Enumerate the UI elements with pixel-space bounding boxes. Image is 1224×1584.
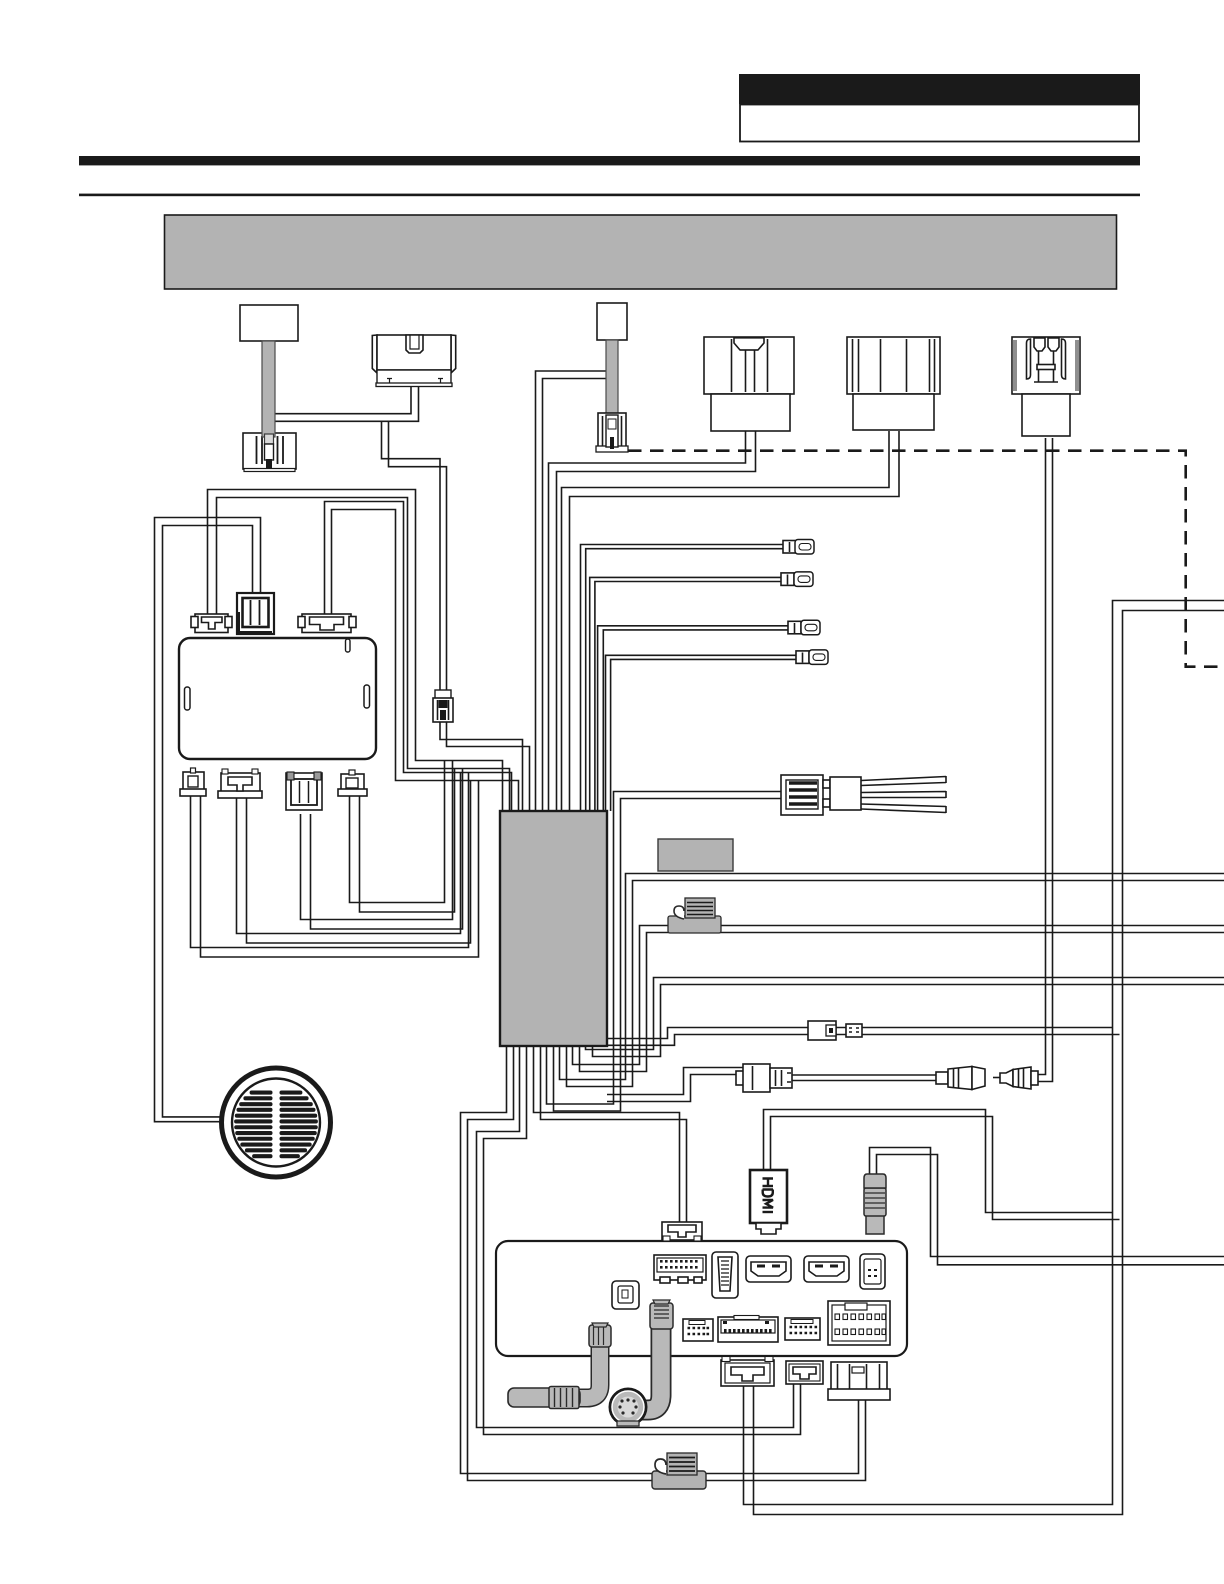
head unit port I xyxy=(785,1318,820,1340)
head unit port multipin A xyxy=(654,1255,706,1283)
head unit HDMI port C xyxy=(746,1256,791,1282)
connector C2 body xyxy=(372,335,455,387)
white top connector above head unit xyxy=(662,1222,702,1241)
RCA left assembly xyxy=(736,1064,792,1092)
wire HDMI cable up and around xyxy=(764,1110,1113,1213)
wire spade terminal T4 xyxy=(606,655,797,811)
fax icon on wire B xyxy=(668,898,721,933)
3wire connector xyxy=(781,775,946,815)
gray section banner xyxy=(165,215,1117,289)
connector C1 feed box xyxy=(240,305,298,341)
head unit port G xyxy=(683,1319,713,1341)
gray plug left with tube to antenna barrel xyxy=(570,1323,611,1398)
DIN round connector xyxy=(609,1388,648,1427)
antenna plug vertical xyxy=(864,1174,886,1234)
wire spade terminal T3 xyxy=(598,626,788,811)
lower connector c xyxy=(286,772,322,810)
inline connector on C2 branch wire xyxy=(433,690,453,722)
wire C4 to main unit xyxy=(549,431,746,811)
antenna barrel connector xyxy=(508,1387,580,1409)
wire mic loop unit to connector3 xyxy=(461,1046,859,1474)
left square connector (optical) xyxy=(237,593,274,634)
thick horizontal rule xyxy=(79,156,1140,165)
gray plug right with tube to DIN xyxy=(638,1300,673,1410)
wire C5 to main unit xyxy=(562,431,890,811)
wire C unit to right edge xyxy=(586,978,1224,1050)
head unit port H wide xyxy=(718,1316,778,1343)
white connector2 under head unit xyxy=(786,1361,823,1384)
connector C5 xyxy=(847,337,940,430)
wire spade terminal T2 xyxy=(590,577,781,811)
connector C3 body xyxy=(596,413,628,452)
wire B unit to right edge xyxy=(573,926,1224,1065)
head unit vertical port B xyxy=(712,1252,738,1298)
lower connector d xyxy=(338,770,367,796)
wire L3 wide connector loop to main unit xyxy=(325,502,512,812)
connector C6 xyxy=(1012,337,1080,436)
wire lower connector b riser xyxy=(237,773,461,934)
wire antenna plug to right edge xyxy=(870,1148,1224,1257)
left module box xyxy=(179,638,376,759)
connector C3 gray ribbon xyxy=(606,340,618,414)
wire RCA left from unit right edge xyxy=(607,1068,744,1095)
head unit small port E xyxy=(860,1254,885,1289)
wire L1 small connector loop to main unit xyxy=(208,490,503,812)
wire unit to inline pair to fat wire xyxy=(607,1028,1113,1039)
spade terminal T4 xyxy=(796,650,828,665)
header white sub box xyxy=(740,105,1139,142)
wire C2 junction to inline connector to main unit xyxy=(382,421,441,698)
white connector1 under head unit xyxy=(721,1357,774,1387)
wire C2 to C1 xyxy=(275,386,411,414)
wire lower connector c riser xyxy=(301,761,453,920)
big connector3 under head unit xyxy=(828,1362,890,1400)
lower connector b xyxy=(218,769,262,798)
dashed line from C3 to right edge xyxy=(628,451,1224,667)
spade terminal T3 xyxy=(788,620,820,635)
HDMI cable label xyxy=(750,1170,787,1234)
wire unit to white top connector xyxy=(534,1046,680,1222)
wire speaker loop to square connector xyxy=(163,526,253,1117)
wire A unit to right edge xyxy=(560,874,1224,1080)
RCA male plug xyxy=(993,1067,1038,1089)
left wide connector (to L3) xyxy=(298,614,356,633)
wire C6 down to RCA male plug xyxy=(1036,438,1046,1075)
wire spade terminal T1 xyxy=(581,545,784,812)
head unit HDMI port D xyxy=(804,1256,849,1282)
thin horizontal rule xyxy=(79,194,1140,197)
wire unit to 3wire connector xyxy=(547,792,782,1105)
wire unit to white connector2 xyxy=(477,1046,794,1428)
connector C3 feed box xyxy=(597,303,627,340)
main gray unit xyxy=(500,811,607,1046)
connector C1 body xyxy=(243,341,296,472)
small gray box on wire A xyxy=(658,839,733,871)
header black title bar xyxy=(739,74,1140,104)
wire lower connector a riser xyxy=(191,773,469,948)
head unit small square port F xyxy=(612,1281,639,1309)
wire RCA extension thin pair xyxy=(792,1074,938,1076)
wire lower connector d riser xyxy=(350,761,445,903)
wire C3 ribbon branch to main unit xyxy=(536,371,608,811)
speaker xyxy=(222,1068,331,1177)
spade terminal T1 xyxy=(783,540,814,555)
microphone icon xyxy=(652,1453,706,1489)
connector C4 xyxy=(704,337,794,431)
wire fat loop connector1 to right edge xyxy=(744,601,1224,1505)
spade terminal T2 xyxy=(781,572,813,587)
inline pair connector icons xyxy=(808,1021,862,1040)
left small connector (to L1) xyxy=(191,614,232,633)
lower connector a xyxy=(180,768,206,796)
head unit box xyxy=(496,1241,907,1356)
head unit port J big xyxy=(828,1301,890,1345)
RCA female plug xyxy=(936,1067,985,1090)
